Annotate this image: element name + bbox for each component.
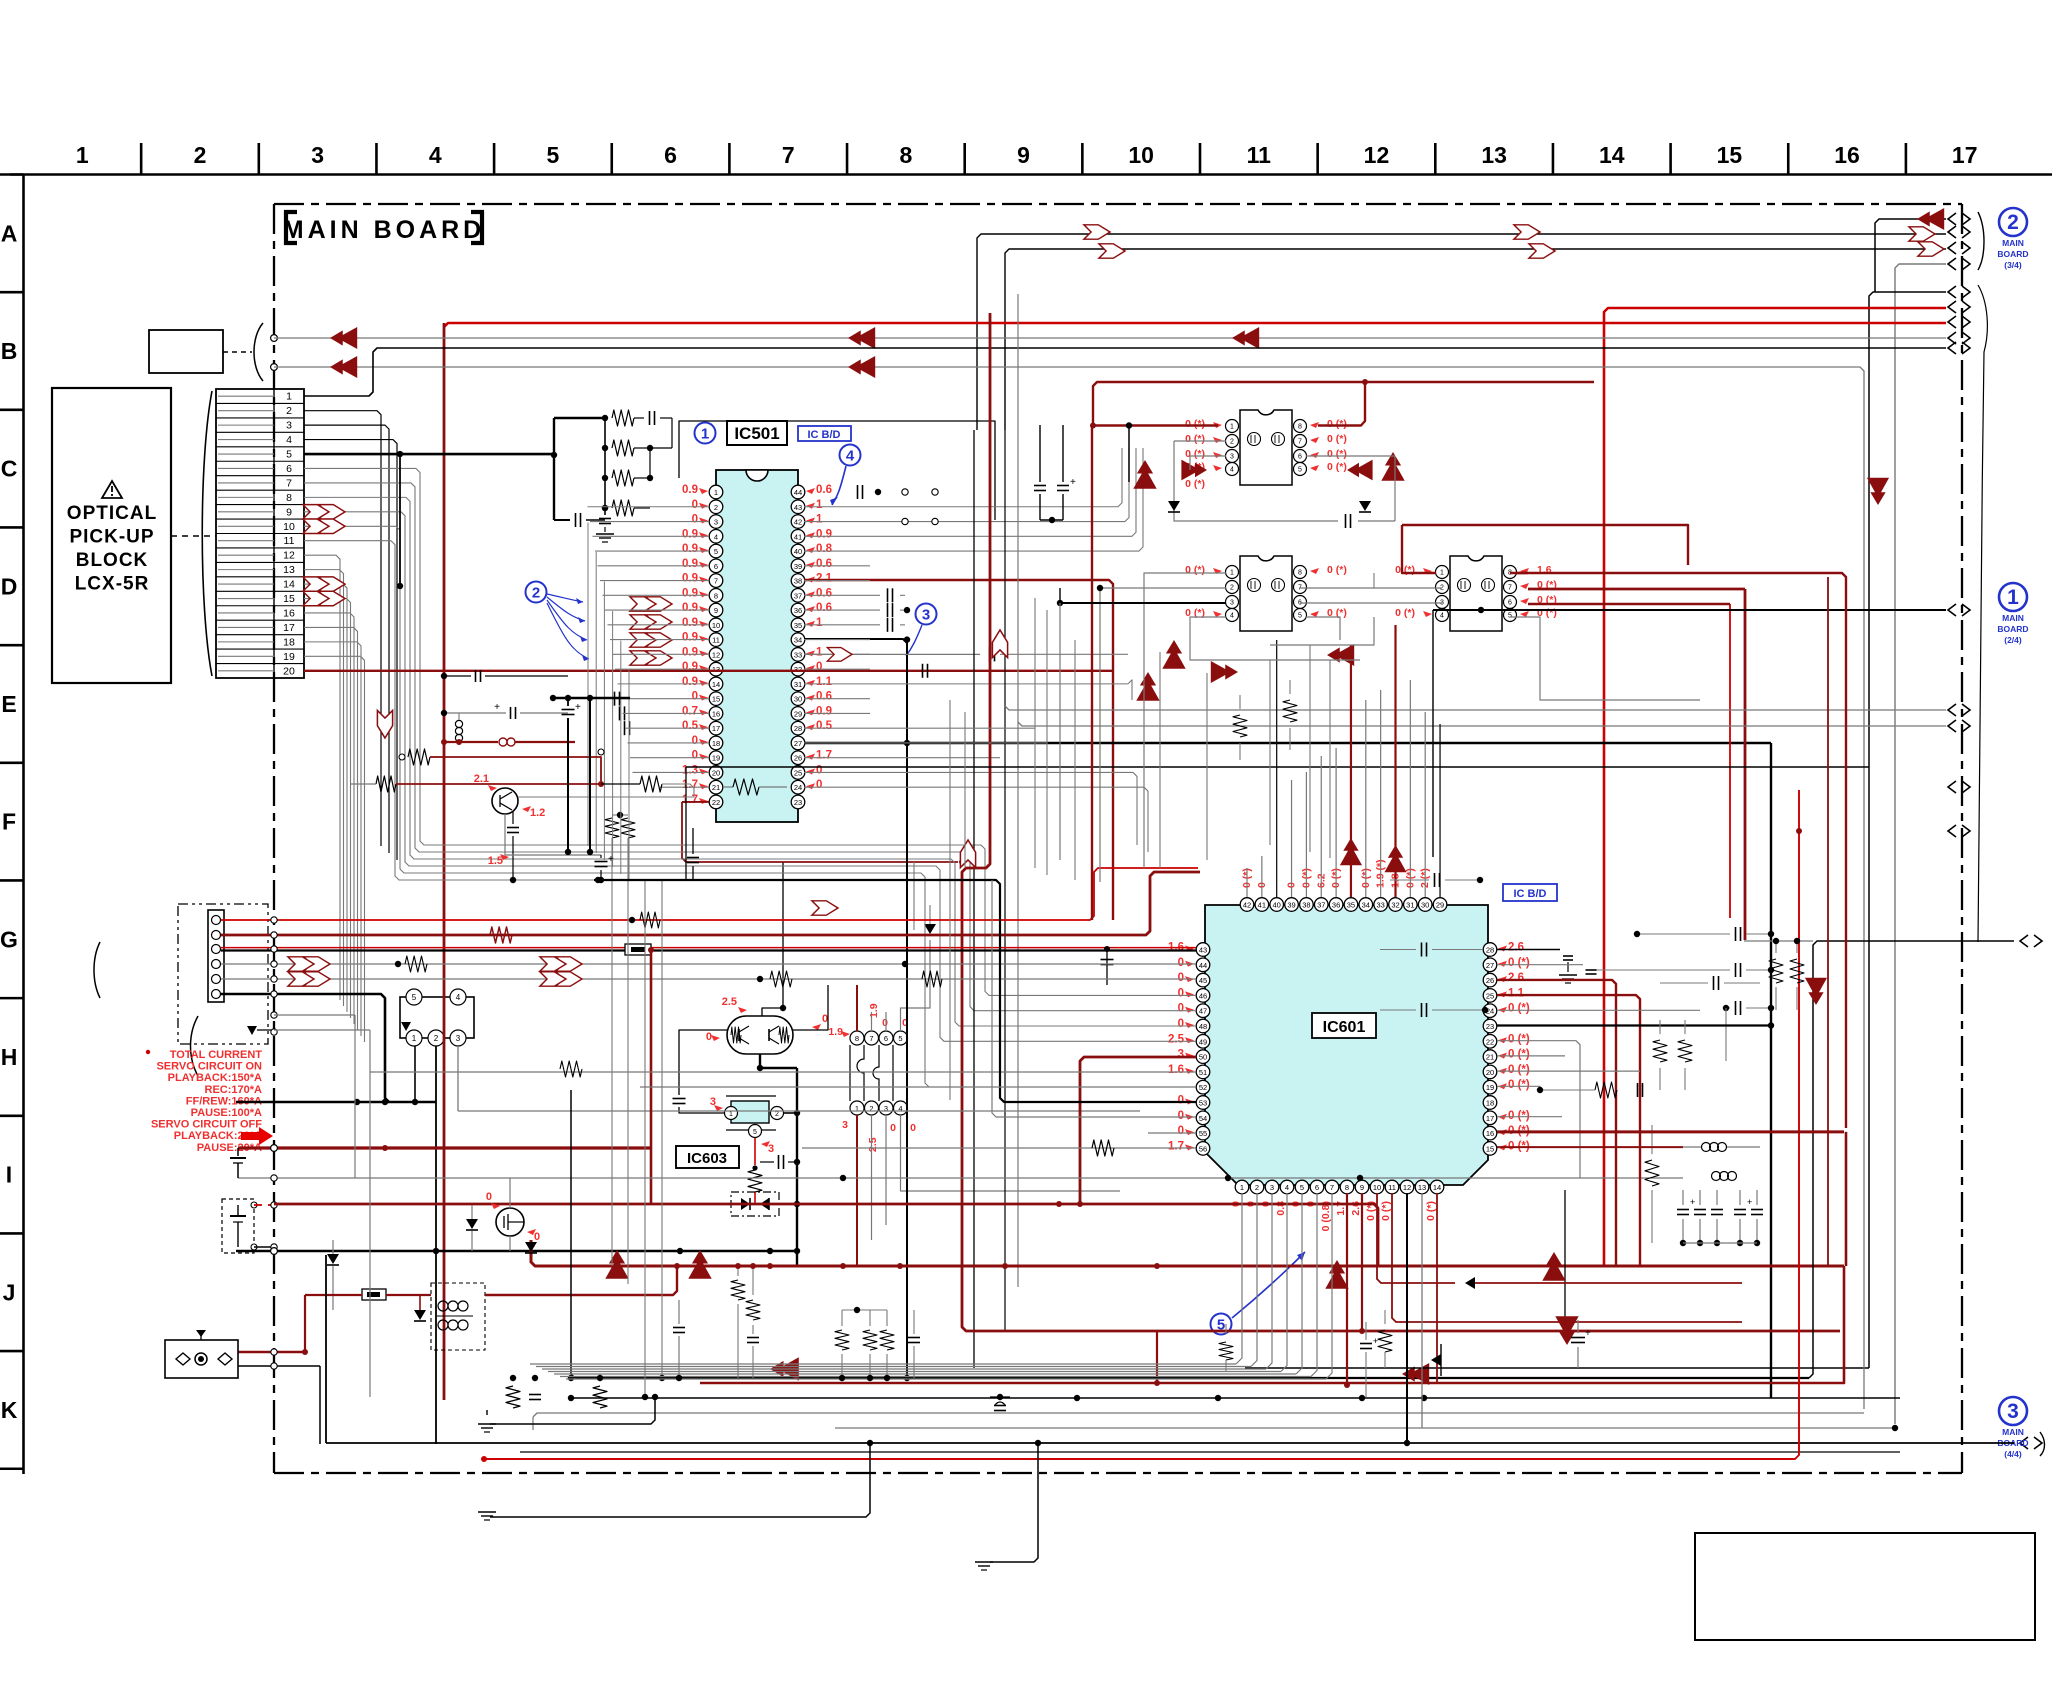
svg-text:33: 33: [1376, 901, 1384, 910]
svg-text:5: 5: [1300, 1183, 1304, 1192]
svg-text:20: 20: [712, 768, 720, 777]
svg-text:1.5: 1.5: [488, 855, 503, 867]
svg-text:2: 2: [194, 142, 207, 168]
svg-text:5: 5: [714, 547, 718, 556]
svg-text:52: 52: [1199, 1083, 1207, 1092]
svg-text:15: 15: [712, 695, 720, 704]
svg-text:0 (*): 0 (*): [1508, 1049, 1530, 1061]
svg-text:0.5: 0.5: [816, 720, 833, 732]
svg-text:4: 4: [846, 447, 855, 464]
svg-text:(2/4): (2/4): [2004, 635, 2022, 645]
svg-text:4: 4: [1440, 613, 1444, 620]
svg-text:2.1: 2.1: [816, 573, 833, 585]
svg-text:10: 10: [1373, 1183, 1381, 1192]
svg-text:0: 0: [692, 514, 698, 526]
svg-text:26: 26: [1486, 976, 1494, 985]
svg-text:5: 5: [1298, 613, 1302, 620]
svg-text:4: 4: [1230, 467, 1234, 474]
svg-text:8: 8: [286, 492, 292, 504]
svg-text:0: 0: [910, 1122, 916, 1134]
svg-text:1.3: 1.3: [682, 764, 698, 776]
svg-text:8: 8: [1345, 1183, 1349, 1192]
svg-text:3: 3: [311, 142, 324, 168]
svg-text:1: 1: [714, 488, 718, 497]
svg-text:2: 2: [869, 1104, 873, 1113]
svg-text:SERVO CIRCUIT ON: SERVO CIRCUIT ON: [156, 1061, 262, 1073]
svg-text:21: 21: [1486, 1053, 1494, 1062]
svg-text:TOTAL CURRENT: TOTAL CURRENT: [170, 1049, 263, 1061]
svg-text:21: 21: [712, 783, 720, 792]
svg-text:I: I: [6, 1162, 12, 1188]
svg-text:1: 1: [855, 1104, 859, 1113]
svg-text:17: 17: [283, 622, 295, 634]
svg-text:27: 27: [794, 739, 802, 748]
svg-text:23: 23: [794, 798, 802, 807]
svg-text:32: 32: [1391, 901, 1399, 910]
svg-text:14: 14: [712, 680, 720, 689]
svg-text:1: 1: [729, 1111, 733, 1118]
svg-text:26: 26: [794, 754, 802, 763]
svg-text:0: 0: [1178, 1003, 1184, 1015]
svg-text:PLAYBACK:150*A: PLAYBACK:150*A: [168, 1072, 262, 1084]
svg-text:1.9: 1.9: [828, 1026, 843, 1038]
svg-text:18: 18: [712, 739, 720, 748]
svg-text:7: 7: [869, 1034, 873, 1043]
svg-text:31: 31: [1406, 901, 1414, 910]
svg-text:1.1: 1.1: [816, 676, 833, 688]
svg-text:8: 8: [1298, 424, 1302, 431]
svg-text:MAIN: MAIN: [2002, 238, 2024, 248]
svg-text:4: 4: [1230, 613, 1234, 620]
svg-text:0: 0: [1178, 972, 1184, 984]
svg-text:34: 34: [1362, 901, 1370, 910]
svg-text:0.9: 0.9: [682, 484, 698, 496]
svg-text:1: 1: [2007, 586, 2019, 609]
svg-text:6: 6: [1298, 454, 1302, 461]
svg-text:B: B: [1, 338, 18, 364]
svg-text:E: E: [1, 691, 16, 717]
svg-text:3: 3: [456, 1034, 461, 1043]
svg-text:18: 18: [283, 636, 295, 648]
svg-text:0.6: 0.6: [816, 484, 832, 496]
svg-text:22: 22: [712, 798, 720, 807]
svg-text:0 (*): 0 (*): [1508, 1064, 1530, 1076]
svg-text:3: 3: [2007, 1400, 2019, 1423]
svg-text:15: 15: [1486, 1144, 1494, 1153]
svg-text:0.6: 0.6: [816, 587, 832, 599]
svg-text:G: G: [0, 926, 18, 952]
svg-text:44: 44: [1199, 961, 1207, 970]
svg-text:7: 7: [782, 142, 795, 168]
svg-text:33: 33: [794, 650, 802, 659]
svg-text:0: 0: [1178, 1125, 1184, 1137]
svg-text:43: 43: [1199, 946, 1207, 955]
svg-text:42: 42: [794, 518, 802, 527]
svg-text:9: 9: [1360, 1183, 1364, 1192]
svg-text:0.9: 0.9: [682, 587, 698, 599]
svg-text:36: 36: [794, 606, 802, 615]
svg-text:40: 40: [794, 547, 802, 556]
svg-text:4: 4: [714, 532, 718, 541]
svg-text:0: 0: [692, 735, 698, 747]
svg-text:2: 2: [434, 1034, 439, 1043]
svg-text:+: +: [1690, 1197, 1695, 1207]
svg-text:1.2: 1.2: [530, 807, 545, 819]
svg-text:2.5: 2.5: [867, 1137, 879, 1152]
svg-text:3: 3: [1230, 454, 1234, 461]
svg-text:4: 4: [456, 993, 461, 1002]
svg-text:0: 0: [822, 1013, 828, 1025]
svg-text:51: 51: [1199, 1068, 1207, 1077]
svg-text:IC601: IC601: [1323, 1019, 1366, 1036]
svg-text:45: 45: [1199, 976, 1207, 985]
svg-text:12: 12: [1403, 1183, 1411, 1192]
svg-text:3: 3: [286, 420, 292, 432]
svg-text:44: 44: [794, 488, 802, 497]
svg-text:47: 47: [1199, 1007, 1207, 1016]
svg-text:2.5: 2.5: [1168, 1033, 1185, 1045]
svg-text:12: 12: [1364, 142, 1390, 168]
svg-text:41: 41: [794, 532, 802, 541]
svg-text:8: 8: [1298, 570, 1302, 577]
svg-text:3: 3: [768, 1143, 774, 1155]
svg-text:(4/4): (4/4): [2004, 1449, 2022, 1459]
svg-text:7: 7: [1298, 439, 1302, 446]
svg-text:0.9: 0.9: [682, 543, 698, 555]
svg-text:LCX-5R: LCX-5R: [75, 574, 150, 595]
svg-text:0 (*): 0 (*): [1185, 448, 1205, 460]
svg-text:0 (*): 0 (*): [1508, 1033, 1530, 1045]
svg-text:0.9: 0.9: [682, 573, 698, 585]
svg-text:0.9: 0.9: [682, 646, 698, 658]
svg-text:20: 20: [1486, 1068, 1494, 1077]
svg-text:13: 13: [1418, 1183, 1426, 1192]
svg-text:0 (*): 0 (*): [1327, 564, 1347, 576]
svg-text:1: 1: [701, 425, 709, 442]
svg-text:0: 0: [692, 691, 698, 703]
svg-text:0: 0: [706, 1031, 712, 1043]
svg-text:0: 0: [1178, 1110, 1184, 1122]
svg-text:7: 7: [1508, 585, 1512, 592]
svg-text:50: 50: [1199, 1053, 1207, 1062]
svg-text:0.9: 0.9: [682, 617, 698, 629]
svg-text:0: 0: [534, 1231, 540, 1243]
svg-text:4: 4: [1285, 1183, 1289, 1192]
svg-text:4: 4: [286, 434, 292, 446]
svg-text:0.9: 0.9: [682, 602, 698, 614]
svg-text:OPTICAL: OPTICAL: [67, 503, 157, 524]
svg-text:17: 17: [1486, 1114, 1494, 1123]
svg-text:24: 24: [794, 783, 802, 792]
svg-text:7: 7: [286, 477, 292, 489]
svg-text:8: 8: [855, 1034, 859, 1043]
svg-text:2: 2: [714, 503, 718, 512]
svg-text:BOARD: BOARD: [1997, 624, 2028, 634]
svg-text:0.6: 0.6: [816, 691, 832, 703]
svg-text:D: D: [1, 573, 18, 599]
svg-text:14: 14: [1433, 1183, 1441, 1192]
svg-text:4: 4: [429, 142, 442, 168]
svg-text:29: 29: [794, 709, 802, 718]
svg-text:38: 38: [794, 577, 802, 586]
svg-text:A: A: [1, 220, 18, 246]
svg-text:IC B/D: IC B/D: [1514, 888, 1547, 900]
svg-text:11: 11: [1388, 1183, 1396, 1192]
svg-text:IC501: IC501: [734, 424, 779, 443]
svg-text:0.8: 0.8: [816, 543, 833, 555]
svg-text:6: 6: [286, 463, 292, 475]
svg-text:13: 13: [1481, 142, 1507, 168]
svg-text:49: 49: [1199, 1037, 1207, 1046]
svg-text:0.9: 0.9: [682, 676, 698, 688]
svg-text:BLOCK: BLOCK: [76, 550, 149, 571]
svg-text:10: 10: [712, 621, 720, 630]
svg-text:PAUSE:100*A: PAUSE:100*A: [191, 1107, 262, 1119]
svg-text:14: 14: [1599, 142, 1625, 168]
svg-text:2.6: 2.6: [1508, 972, 1524, 984]
svg-text:MAIN BOARD: MAIN BOARD: [283, 216, 486, 244]
svg-text:0.5: 0.5: [682, 720, 699, 732]
svg-text:F: F: [2, 809, 16, 835]
svg-text:55: 55: [1199, 1129, 1207, 1138]
svg-text:2.5: 2.5: [722, 996, 737, 1008]
svg-text:0 (*): 0 (*): [1380, 1201, 1392, 1221]
svg-text:2: 2: [1230, 585, 1234, 592]
svg-text:+: +: [1747, 1197, 1752, 1207]
svg-text:11: 11: [1247, 142, 1272, 168]
svg-text:13: 13: [283, 564, 295, 576]
svg-text:11: 11: [712, 636, 720, 645]
svg-text:2: 2: [1230, 439, 1234, 446]
svg-text:1: 1: [76, 142, 89, 168]
svg-text:1.7: 1.7: [682, 779, 698, 791]
svg-text:0: 0: [816, 779, 822, 791]
svg-text:BOARD: BOARD: [1997, 249, 2028, 259]
svg-text:18: 18: [1486, 1099, 1494, 1108]
svg-text:56: 56: [1199, 1144, 1207, 1153]
svg-text:0: 0: [1178, 957, 1184, 969]
svg-text:1.9: 1.9: [868, 1003, 880, 1018]
svg-text:3: 3: [842, 1119, 848, 1131]
svg-text:IC603: IC603: [687, 1150, 727, 1167]
svg-text:8: 8: [714, 591, 718, 600]
svg-text:28: 28: [1486, 946, 1494, 955]
svg-text:REC:170*A: REC:170*A: [205, 1084, 263, 1096]
svg-text:37: 37: [1317, 901, 1325, 910]
svg-text:3: 3: [714, 518, 718, 527]
svg-text:31: 31: [794, 680, 802, 689]
svg-text:7: 7: [714, 577, 718, 586]
svg-text:1: 1: [286, 391, 292, 403]
svg-text:1: 1: [816, 499, 823, 511]
svg-text:0 (*): 0 (*): [1508, 957, 1530, 969]
svg-text:+: +: [1070, 477, 1076, 488]
svg-text:J: J: [3, 1279, 16, 1305]
svg-text:22: 22: [1486, 1037, 1494, 1046]
svg-text:0 (*): 0 (*): [1185, 433, 1205, 445]
svg-text:0.6: 0.6: [816, 558, 832, 570]
svg-text:6: 6: [1508, 600, 1512, 607]
svg-text:34: 34: [794, 636, 802, 645]
svg-text:0.6: 0.6: [816, 602, 832, 614]
svg-text:K: K: [1, 1397, 18, 1423]
svg-text:PICK-UP: PICK-UP: [69, 527, 154, 548]
svg-text:35: 35: [1347, 901, 1355, 910]
svg-text:+: +: [1585, 1328, 1591, 1339]
svg-text:+: +: [608, 854, 614, 865]
svg-text:39: 39: [794, 562, 802, 571]
svg-text:0 (*): 0 (*): [1185, 418, 1205, 430]
svg-text:12: 12: [712, 650, 720, 659]
svg-text:0 (*): 0 (*): [1327, 433, 1347, 445]
svg-text:0: 0: [486, 1191, 492, 1203]
svg-text:1: 1: [1230, 570, 1234, 577]
svg-text:2: 2: [1255, 1183, 1259, 1192]
svg-text:46: 46: [1199, 991, 1207, 1000]
svg-text:53: 53: [1199, 1099, 1207, 1108]
svg-text:3: 3: [884, 1104, 888, 1113]
svg-text:0: 0: [882, 1017, 888, 1029]
svg-text:2: 2: [2007, 211, 2019, 234]
svg-text:0 (*): 0 (*): [1508, 1003, 1530, 1015]
svg-text:0: 0: [1178, 987, 1184, 999]
svg-text:IC B/D: IC B/D: [808, 429, 841, 441]
svg-text:3: 3: [1230, 600, 1234, 607]
svg-text:10: 10: [283, 521, 295, 533]
svg-text:0 (*): 0 (*): [1327, 461, 1347, 473]
svg-text:15: 15: [283, 593, 295, 605]
svg-text:2.6: 2.6: [1508, 942, 1524, 954]
svg-text:C: C: [1, 456, 18, 482]
svg-text:0.9: 0.9: [816, 705, 832, 717]
svg-text:+: +: [1373, 1336, 1378, 1346]
svg-text:42: 42: [1243, 901, 1251, 910]
svg-text:37: 37: [794, 591, 802, 600]
svg-text:1.1: 1.1: [1508, 987, 1525, 999]
svg-text:1: 1: [816, 514, 823, 526]
svg-text:2: 2: [286, 405, 292, 417]
svg-text:0.9: 0.9: [816, 528, 832, 540]
svg-text:48: 48: [1199, 1022, 1207, 1031]
svg-text:0 (*): 0 (*): [1327, 418, 1347, 430]
svg-text:0.9: 0.9: [682, 558, 698, 570]
svg-text:0 (*): 0 (*): [1185, 564, 1205, 576]
svg-text:6: 6: [1315, 1183, 1319, 1192]
svg-text:0.9: 0.9: [682, 528, 698, 540]
svg-text:H: H: [1, 1044, 18, 1070]
svg-text:8: 8: [899, 142, 912, 168]
svg-text:0: 0: [816, 764, 822, 776]
svg-text:0.9: 0.9: [682, 632, 698, 644]
svg-text:0 (0.8): 0 (0.8): [1320, 1201, 1332, 1231]
svg-text:0 (*): 0 (*): [1395, 607, 1415, 619]
svg-text:0: 0: [890, 1122, 896, 1134]
svg-text:1: 1: [816, 646, 823, 658]
svg-text:5: 5: [1298, 467, 1302, 474]
svg-text:1: 1: [1440, 570, 1444, 577]
svg-text:36: 36: [1332, 901, 1340, 910]
svg-text:0 (*): 0 (*): [1508, 1079, 1530, 1091]
svg-text:11: 11: [284, 535, 295, 547]
svg-text:35: 35: [794, 621, 802, 630]
svg-text:41: 41: [1258, 901, 1266, 910]
svg-text:6: 6: [884, 1034, 888, 1043]
svg-text:25: 25: [794, 768, 802, 777]
svg-text:0: 0: [692, 499, 698, 511]
svg-text:6: 6: [664, 142, 677, 168]
svg-text:28: 28: [794, 724, 802, 733]
svg-text:1: 1: [1240, 1183, 1244, 1192]
svg-text:1.7: 1.7: [1168, 1140, 1184, 1152]
svg-text:9: 9: [286, 506, 292, 518]
svg-text:9: 9: [1017, 142, 1030, 168]
svg-text:40: 40: [1273, 901, 1281, 910]
svg-text:16: 16: [1834, 142, 1860, 168]
svg-text:1: 1: [816, 617, 823, 629]
svg-text:1.7: 1.7: [682, 794, 698, 806]
svg-text:9: 9: [714, 606, 718, 615]
svg-text:+: +: [494, 702, 500, 713]
svg-text:27: 27: [1486, 961, 1494, 970]
svg-text:39: 39: [1287, 901, 1295, 910]
svg-text:SERVO CIRCUIT OFF: SERVO CIRCUIT OFF: [151, 1119, 262, 1131]
svg-text:19: 19: [283, 651, 295, 663]
svg-text:5: 5: [898, 1034, 902, 1043]
svg-text:2: 2: [775, 1111, 779, 1118]
svg-text:54: 54: [1199, 1114, 1207, 1123]
svg-text:1.6: 1.6: [1168, 1064, 1184, 1076]
svg-text:5: 5: [286, 449, 292, 461]
svg-text:12: 12: [283, 550, 295, 562]
svg-text:5: 5: [547, 142, 560, 168]
svg-text:23: 23: [1486, 1022, 1494, 1031]
svg-text:16: 16: [1486, 1129, 1494, 1138]
svg-text:25: 25: [1486, 991, 1494, 1000]
svg-text:3: 3: [1178, 1049, 1184, 1061]
svg-text:4: 4: [898, 1104, 902, 1113]
svg-text:38: 38: [1302, 901, 1310, 910]
svg-text:MAIN: MAIN: [2002, 613, 2024, 623]
svg-text:14: 14: [283, 579, 295, 591]
svg-text:0 (*): 0 (*): [1425, 1201, 1437, 1221]
svg-text:20: 20: [283, 665, 295, 677]
svg-text:0.7: 0.7: [682, 705, 698, 717]
svg-text:17: 17: [712, 724, 720, 733]
svg-text:7: 7: [1330, 1183, 1334, 1192]
svg-text:(3/4): (3/4): [2004, 260, 2022, 270]
svg-text:16: 16: [712, 709, 720, 718]
svg-text:19: 19: [1486, 1083, 1494, 1092]
svg-text:5: 5: [412, 993, 417, 1002]
svg-text:0 (*): 0 (*): [1185, 478, 1205, 490]
svg-text:17: 17: [1952, 142, 1978, 168]
svg-text:0 (*): 0 (*): [1508, 1110, 1530, 1122]
svg-text:3: 3: [922, 606, 930, 623]
svg-text:5: 5: [1508, 613, 1512, 620]
svg-text:0: 0: [692, 750, 698, 762]
svg-text:19: 19: [712, 754, 720, 763]
svg-text:10: 10: [1128, 142, 1154, 168]
svg-text:1: 1: [412, 1034, 417, 1043]
svg-text:29: 29: [1436, 901, 1444, 910]
svg-text:3: 3: [1270, 1183, 1274, 1192]
svg-text:6: 6: [714, 562, 718, 571]
svg-text:0: 0: [1178, 1095, 1184, 1107]
svg-text:1.7: 1.7: [816, 750, 832, 762]
svg-text:43: 43: [794, 503, 802, 512]
svg-text:5: 5: [753, 1129, 757, 1136]
svg-text:1: 1: [1230, 424, 1234, 431]
